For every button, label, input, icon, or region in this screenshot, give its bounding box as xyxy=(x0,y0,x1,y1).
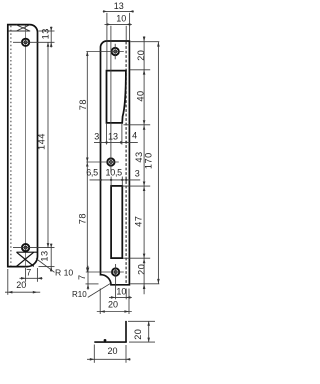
svg-text:13: 13 xyxy=(40,28,50,39)
chain dim 6,5-10,5-3 xyxy=(86,168,140,187)
extension line top edge left view xyxy=(39,30,55,32)
radius label R10 right view xyxy=(72,283,111,299)
svg-text:7: 7 xyxy=(77,274,87,280)
left view top X marking diagonal 2 xyxy=(16,25,30,31)
L profile horizontal leg xyxy=(94,341,127,343)
svg-text:10,5: 10,5 xyxy=(106,168,123,178)
svg-text:20: 20 xyxy=(133,329,143,340)
left view center line xyxy=(25,25,27,266)
svg-text:10: 10 xyxy=(116,286,126,296)
right side chain dim line xyxy=(143,36,146,294)
svg-text:10: 10 xyxy=(116,14,126,24)
dim 78 upper chain line xyxy=(78,52,89,273)
svg-text:20: 20 xyxy=(136,264,146,275)
dim 20 L profile right xyxy=(128,321,155,342)
svg-text:20: 20 xyxy=(108,300,118,310)
left view X marking diagonal 2 xyxy=(17,252,34,266)
svg-text:4: 4 xyxy=(132,131,137,141)
svg-text:40: 40 xyxy=(135,90,145,101)
extension line bottom edge left view xyxy=(39,266,55,268)
dim 10 top right view xyxy=(105,14,132,41)
svg-text:13: 13 xyxy=(39,250,49,261)
svg-text:20: 20 xyxy=(136,50,146,61)
left view top fold line xyxy=(8,30,30,32)
svg-text:43: 43 xyxy=(134,151,144,162)
svg-text:3: 3 xyxy=(135,169,140,179)
L profile dot mark xyxy=(104,339,107,342)
left view screw hole bottom xyxy=(13,244,55,251)
right view screw hole top xyxy=(86,44,124,60)
svg-text:47: 47 xyxy=(134,216,144,227)
dim 7 right view xyxy=(77,266,98,290)
right view outline xyxy=(101,41,130,285)
svg-text:20: 20 xyxy=(107,346,117,356)
dim 20 bottom right view xyxy=(97,289,132,315)
dim 170 xyxy=(143,42,159,284)
dim 20 L profile bottom xyxy=(87,345,131,363)
left view fold line xyxy=(17,251,38,253)
radius label R10 left view xyxy=(36,259,73,278)
svg-text:170: 170 xyxy=(143,152,153,169)
dim 20 left view xyxy=(5,269,40,295)
dim 144 left view xyxy=(37,42,50,247)
dim 10 bottom right view xyxy=(109,286,132,299)
svg-text:7: 7 xyxy=(26,268,31,278)
left view screw hole top xyxy=(13,39,55,46)
left view top X marking diagonal 1 xyxy=(16,25,30,31)
svg-text:6,5: 6,5 xyxy=(86,168,98,178)
svg-text:13: 13 xyxy=(108,131,118,141)
dim 13 top right view xyxy=(103,1,134,70)
deadbolt opening xyxy=(111,186,122,258)
svg-text:20: 20 xyxy=(16,280,26,290)
svg-text:144: 144 xyxy=(37,133,47,150)
dim 13 top left view xyxy=(40,27,52,48)
left view hidden edge dashed line xyxy=(10,26,12,266)
left view outline xyxy=(8,25,38,267)
latch opening xyxy=(107,71,126,123)
svg-text:3: 3 xyxy=(94,132,99,142)
svg-text:R10: R10 xyxy=(72,290,87,299)
right view screw hole bottom xyxy=(86,264,124,299)
L profile vertical leg xyxy=(125,321,127,342)
svg-text:R 10: R 10 xyxy=(55,267,73,277)
left view X marking diagonal 1 xyxy=(17,252,34,266)
chain dim 3-13-4 xyxy=(94,124,138,145)
dim 13 bottom left view xyxy=(39,244,52,272)
dim 7 left view xyxy=(20,268,43,282)
svg-text:78: 78 xyxy=(78,99,88,110)
svg-text:78: 78 xyxy=(78,213,88,224)
right view screw hole middle xyxy=(86,26,119,173)
svg-text:13: 13 xyxy=(114,1,124,11)
extension lines right side xyxy=(123,42,159,284)
right view fold dashed line xyxy=(125,42,127,285)
